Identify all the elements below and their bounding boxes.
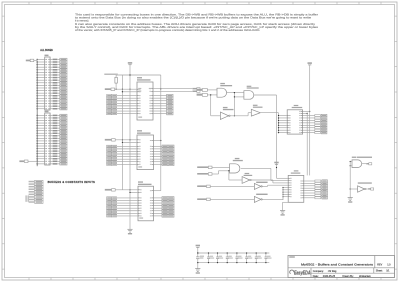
svg-text:BUFFERS & CONSTANTS INPUTS: BUFFERS & CONSTANTS INPUTS xyxy=(48,181,96,184)
svg-text:of the vector, with INTAKB_IP: of the vector, with INTAKB_IP and INTAKC… xyxy=(75,28,260,32)
svg-text:2020-05-25: 2020-05-25 xyxy=(323,275,336,278)
svg-text:My6502 - Buffers and Constant: My6502 - Buffers and Constant Generators xyxy=(301,263,374,267)
svg-text:EasyEDA: EasyEDA xyxy=(294,271,311,277)
svg-text:Date:: Date: xyxy=(313,275,319,278)
svg-text:to extend onto the Data Bus (i: to extend onto the Data Bus (in doing so… xyxy=(75,15,312,19)
svg-text:it to memory).: it to memory). xyxy=(75,18,89,22)
svg-text:Company:: Company: xyxy=(313,270,324,273)
svg-text:<fir blog: <fir blog xyxy=(328,270,337,273)
svg-text:dmitsariam: dmitsariam xyxy=(359,275,371,278)
svg-text:Drawn By:: Drawn By: xyxy=(343,275,354,278)
svg-text:REV: REV xyxy=(377,264,382,267)
svg-text:Sheet:: Sheet: xyxy=(376,270,383,273)
svg-text:ALL BUSES: ALL BUSES xyxy=(40,49,53,52)
